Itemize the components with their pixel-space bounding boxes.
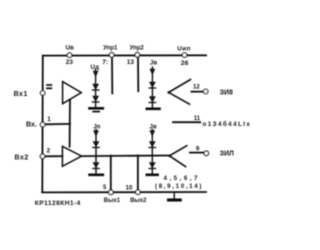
- node pin terminal 2 left: [40, 154, 45, 159]
- diode VD8: [149, 163, 155, 168]
- wire input bus vertical: [69, 100, 71, 147]
- wire drop to pin 5: [110, 156, 112, 191]
- wire lead pin 9: [190, 152, 204, 154]
- node pin terminal 1 left: [40, 122, 45, 127]
- svg-text:5: 5: [103, 185, 107, 191]
- svg-text:Вх1: Вх1: [14, 91, 28, 98]
- wire top rail: [43, 54, 206, 56]
- node pin terminal 10 bottom: [136, 190, 141, 195]
- wire input 2 to amp: [45, 155, 62, 157]
- node pin terminal 26 supply: [182, 53, 187, 58]
- diode VD6: [93, 163, 99, 168]
- svg-text:4,5,6,7: 4,5,6,7: [164, 175, 200, 182]
- svg-text:Упр2: Упр2: [130, 46, 145, 52]
- svg-text:1: 1: [47, 116, 51, 123]
- node pin terminal 13 top: [135, 53, 140, 58]
- wire lead pin 12: [192, 91, 204, 93]
- diode VD3: [150, 82, 156, 87]
- svg-text:2: 2: [47, 148, 51, 155]
- current source I3: [94, 130, 99, 174]
- wire bottom rail: [42, 191, 206, 193]
- wire stub from pin 13: [137, 58, 139, 92]
- wire stub from pin 7: [111, 58, 113, 94]
- svg-text:ЗИ8: ЗИ8: [220, 90, 233, 97]
- svg-text:10: 10: [126, 185, 133, 192]
- svg-text:Вых1: Вых1: [104, 198, 121, 204]
- diode VD1: [93, 84, 99, 89]
- svg-text:9: 9: [196, 145, 200, 152]
- svg-text:Jв: Jв: [149, 123, 156, 130]
- wire input 1 horizontal: [45, 123, 70, 125]
- ground under VD8: [147, 174, 158, 177]
- svg-text:26: 26: [181, 60, 189, 67]
- svg-text:Jв: Jв: [150, 59, 157, 66]
- diode VD7: [149, 142, 155, 147]
- svg-text:Jп: Jп: [93, 123, 100, 130]
- svg-text:Вх.: Вх.: [26, 121, 37, 128]
- node pin terminal 23 top: [67, 53, 72, 58]
- svg-text:Uв: Uв: [66, 45, 75, 52]
- op-amp A2: [62, 146, 81, 166]
- node pin terminal 5 bottom: [109, 190, 114, 195]
- svg-text:Вх2: Вх2: [15, 154, 29, 161]
- svg-text:Uд: Uд: [91, 64, 99, 71]
- node pin terminal 3 left: [40, 91, 45, 96]
- node pin terminal 9 right: [204, 151, 209, 156]
- node pin terminal 12 right: [203, 89, 208, 94]
- svg-text:Вых2: Вых2: [130, 198, 147, 204]
- current source I4: [150, 130, 155, 174]
- svg-text:Упр1: Упр1: [103, 46, 118, 52]
- diode VD2: [93, 96, 99, 101]
- current source I1: [93, 70, 98, 107]
- svg-text:(8,9,10,14): (8,9,10,14): [155, 183, 203, 190]
- svg-text:о1З4б44Llх: о1З4б44Llх: [203, 120, 251, 128]
- svg-text:Uип: Uип: [177, 45, 190, 52]
- ground under VD2: [90, 107, 103, 110]
- svg-text:13: 13: [127, 59, 135, 66]
- wire left rail: [41, 56, 44, 193]
- wire lead pin 11: [173, 121, 200, 123]
- op-amp A1: [63, 82, 82, 104]
- svg-text:23: 23: [66, 59, 74, 66]
- fanout chevron 2: [169, 146, 186, 167]
- ground under VD4: [147, 108, 160, 111]
- svg-text:11: 11: [194, 116, 201, 122]
- ground under VD6: [90, 174, 103, 177]
- wire amp2 output: [82, 155, 170, 158]
- ground at bottom right: [173, 192, 175, 198]
- svg-text:12: 12: [193, 84, 200, 90]
- svg-text:7:: 7:: [102, 59, 108, 66]
- diode VD5: [93, 142, 99, 147]
- current source I2: [150, 67, 155, 107]
- svg-text:КР1128КН1-4: КР1128КН1-4: [35, 200, 81, 207]
- diode VD4: [150, 97, 156, 102]
- fanout chevron 1: [169, 80, 191, 105]
- svg-text:ЗИЛ: ЗИЛ: [220, 150, 234, 157]
- wire drop to pin 10: [137, 156, 139, 191]
- label pin number 3 as bars: [47, 84, 51, 86]
- node pin terminal 7 top: [109, 53, 114, 58]
